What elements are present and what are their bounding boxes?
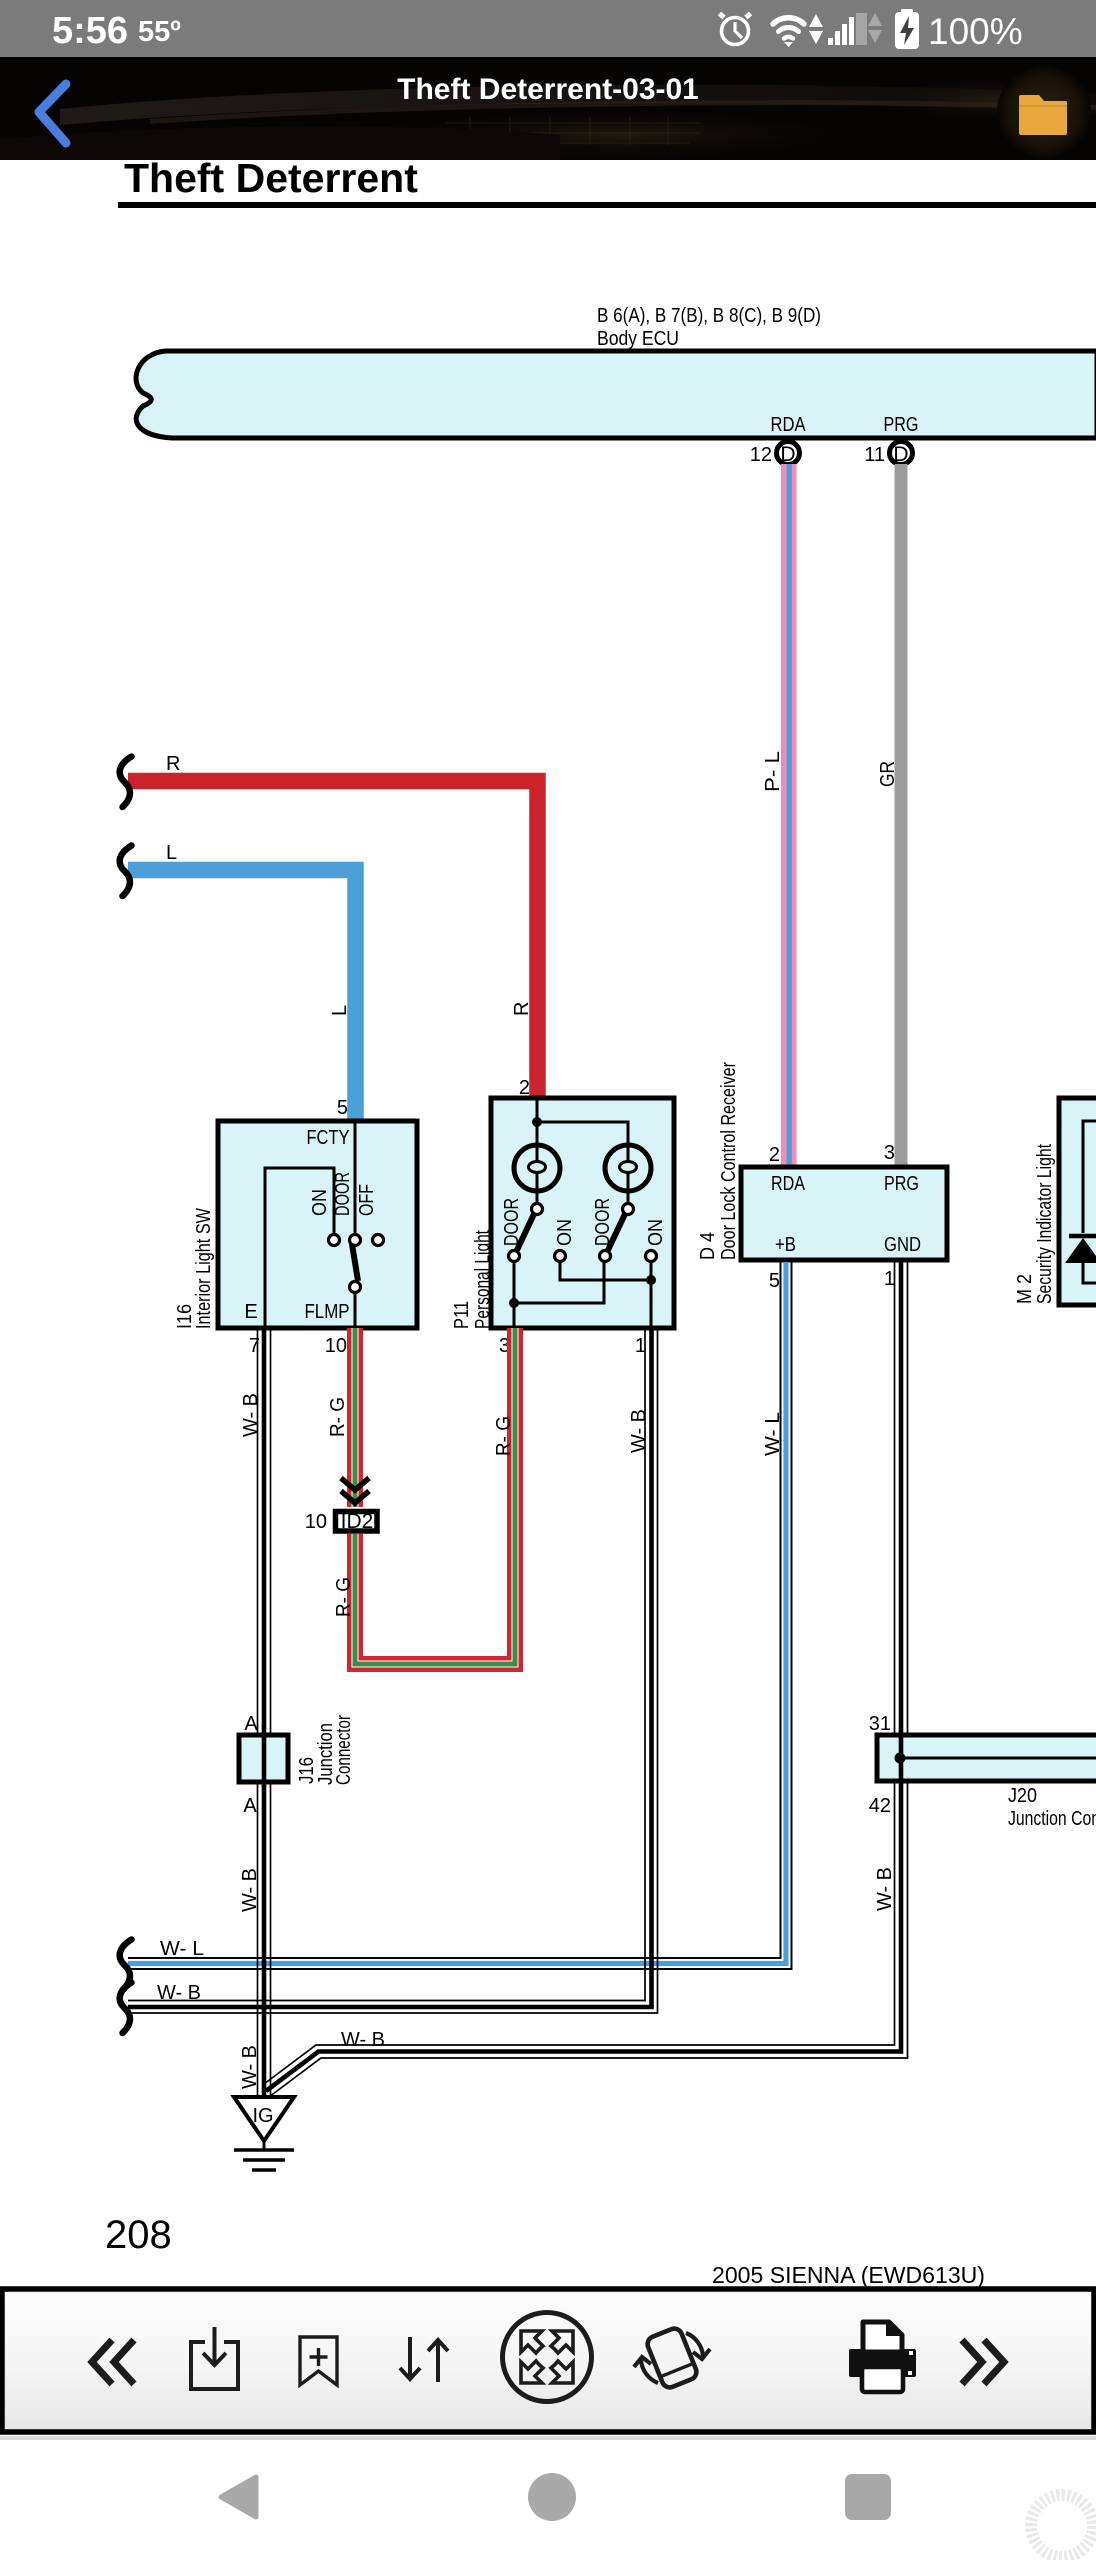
label Body ECU [597, 305, 821, 350]
continuation squiggle L [120, 846, 132, 897]
svg-text:A: A [243, 1795, 257, 1817]
svg-text:W- B: W- B [239, 1868, 261, 1912]
folder button [0, 0, 1, 1]
svg-text:R- G: R- G [327, 1397, 349, 1437]
svg-text:42: 42 [869, 1795, 891, 1817]
svg-text:12: 12 [750, 444, 772, 466]
pin 12 terminal D [750, 414, 806, 466]
toolbar icon download [191, 2327, 238, 2389]
contact pole left [509, 1251, 520, 1262]
switch arm I16 [352, 1244, 358, 1281]
splice marker arrows into ID2 [341, 1478, 369, 1503]
signal up/down arrows [868, 13, 882, 43]
ground IG symbol [234, 2097, 294, 2170]
svg-text:208: 208 [105, 2213, 172, 2257]
connector/ECU box B6-B9 Body ECU [136, 351, 1096, 438]
junction connector J16 box [239, 1715, 355, 1785]
svg-text:11: 11 [864, 444, 885, 466]
svg-text:E: E [244, 1301, 257, 1323]
junction dot pin3 node [509, 1298, 519, 1308]
svg-text:OFF: OFF [356, 1184, 378, 1216]
svg-text:Door Lock Control Receiver: Door Lock Control Receiver [718, 1062, 740, 1260]
contact ON right (P11) [645, 1219, 667, 1262]
switch arm left P11 [517, 1214, 534, 1250]
svg-text:W- B: W- B [874, 1867, 896, 1911]
svg-text:W- B: W- B [341, 2029, 385, 2051]
toolbar icon print [849, 2322, 916, 2392]
alarm clock icon [720, 14, 751, 45]
switch arm right P11 [608, 1214, 625, 1250]
svg-text:W- L: W- L [762, 1412, 784, 1456]
svg-text:ON: ON [645, 1219, 667, 1246]
svg-text:5: 5 [337, 1097, 348, 1119]
svg-text:R: R [511, 1002, 533, 1016]
svg-text:Junction Con: Junction Con [1008, 1808, 1096, 1830]
svg-text:FLMP: FLMP [305, 1301, 350, 1323]
svg-text:P- L: P- L [762, 751, 784, 792]
svg-text:31: 31 [869, 1713, 891, 1735]
svg-text:1: 1 [884, 1268, 895, 1290]
wire internal FCTY line [354, 1123, 357, 1234]
wire ON contacts to pin 1 [560, 1262, 651, 1326]
contact FLMP pole [350, 1282, 361, 1293]
svg-text:W- B: W- B [240, 1393, 262, 1437]
junction dot pin1 node [646, 1275, 656, 1285]
svg-text:W- B: W- B [239, 2045, 261, 2089]
contact DOOR (I16) [332, 1172, 361, 1246]
wire R-G from I16 pin 10 to ID2 [327, 1328, 355, 1507]
wire W-L from D4 +B to left edge [128, 1262, 792, 1969]
nav back triangle [221, 2477, 256, 2517]
svg-text:PRG: PRG [884, 414, 919, 436]
wire W-B from D4 GND down and to ground [264, 1262, 908, 2097]
svg-text:RDA: RDA [771, 414, 807, 436]
svg-text:D: D [780, 443, 795, 466]
wire W-B from I16 pin 7 to ground [239, 1328, 271, 2099]
lamp left [514, 1122, 560, 1204]
svg-text:2: 2 [769, 1144, 780, 1166]
toolbar container [0, 2289, 1096, 2440]
svg-text:IG: IG [252, 2105, 273, 2127]
svg-text:ID2: ID2 [341, 1510, 374, 1533]
svg-text:GND: GND [884, 1234, 921, 1256]
continuation squiggle R [120, 757, 132, 808]
svg-text:ON: ON [309, 1189, 331, 1216]
contact ON left (P11) [554, 1219, 576, 1262]
svg-text:PRG: PRG [884, 1173, 919, 1195]
folder icon [1019, 95, 1067, 135]
indicator M2 Security Indicator Light box [1014, 1098, 1096, 1305]
svg-text:GR: GR [877, 761, 899, 787]
wire left pole to pin 3 [513, 1262, 516, 1326]
receiver D4 Door Lock Control Receiver box [697, 1062, 947, 1260]
svg-text:Interior Light SW: Interior Light SW [193, 1208, 215, 1329]
svg-text:5: 5 [769, 1270, 780, 1292]
nav home circle [528, 2473, 576, 2521]
wire right DOOR pole to junction [514, 1262, 604, 1303]
toolbar icon fit/expand [503, 2313, 592, 2402]
svg-text:W- L: W- L [160, 1938, 204, 1960]
lamp unit P11 Personal Light box [451, 1098, 674, 1329]
lamp right [605, 1145, 651, 1204]
wire pin2 internal [537, 1100, 628, 1145]
svg-text:R- G: R- G [493, 1416, 515, 1456]
toolbar icon bookmark add [300, 2337, 337, 2385]
svg-text:A: A [244, 1713, 258, 1735]
svg-text:Connector: Connector [333, 1715, 355, 1785]
svg-text:W- B: W- B [628, 1409, 650, 1453]
svg-text:10: 10 [325, 1335, 347, 1357]
nav recents square [845, 2474, 891, 2520]
contact OFF (I16) [356, 1184, 384, 1246]
continuation squiggle W-L [120, 1940, 132, 1991]
toolbar icon scroll up/down [400, 2337, 448, 2382]
wire internal E line [265, 1168, 334, 1326]
svg-text:R- G: R- G [333, 1577, 355, 1617]
junction connector J20 box [877, 1735, 1096, 1830]
toolbar icon previous page [92, 2340, 134, 2384]
wifi up/down arrows [809, 14, 823, 44]
wifi icon [773, 18, 804, 39]
contact pole right [600, 1251, 611, 1262]
status bar [0, 0, 1096, 57]
svg-text:DOOR: DOOR [332, 1172, 354, 1216]
svg-text:J20: J20 [1008, 1785, 1037, 1807]
heading Theft Deterrent [118, 155, 1096, 208]
toolbar icon next page [962, 2340, 1004, 2384]
watermark [1031, 2495, 1093, 2557]
svg-text:Theft Deterrent: Theft Deterrent [124, 155, 418, 201]
wire L (blue) [128, 842, 356, 1121]
signal bars [828, 17, 854, 45]
wire GR from ECU pin 11 to D4 pin 3 [877, 464, 908, 1167]
continuation squiggle W-B [120, 1983, 132, 2034]
svg-text:D 4: D 4 [697, 1232, 719, 1260]
junction dot [532, 1117, 542, 1127]
svg-text:Personal Light: Personal Light [472, 1230, 494, 1329]
wire W-B from P11 pin 1 to left edge [128, 1328, 658, 2013]
contact DOOR right (P11) [592, 1198, 634, 1246]
svg-text:P11: P11 [451, 1301, 473, 1329]
svg-text:+B: +B [775, 1234, 796, 1256]
wire R-G from ID2 to P11 pin 3 [333, 1328, 515, 1664]
contact ON (I16) [309, 1189, 340, 1246]
svg-text:RDA: RDA [771, 1173, 806, 1195]
junction ID2 box [305, 1510, 377, 1533]
svg-text:W- B: W- B [157, 1982, 201, 2004]
svg-text:R: R [166, 753, 180, 775]
svg-text:ON: ON [554, 1219, 576, 1246]
wire internal M2 [1083, 1121, 1096, 1283]
svg-text:3: 3 [884, 1142, 895, 1164]
svg-text:2005 SIENNA (EWD613U): 2005 SIENNA (EWD613U) [712, 2262, 985, 2288]
back chevron [39, 84, 66, 143]
svg-text:FCTY: FCTY [307, 1127, 350, 1149]
svg-text:L: L [166, 842, 177, 864]
svg-text:Body ECU: Body ECU [597, 328, 679, 350]
diode/LED in M2 [1065, 1236, 1096, 1263]
svg-text:L: L [329, 1005, 351, 1016]
title bar [0, 57, 1096, 160]
svg-text:D: D [893, 443, 908, 466]
pin 11 terminal D [864, 414, 918, 466]
wire R (red) [128, 753, 538, 1099]
contact DOOR left (P11) [501, 1198, 543, 1246]
battery [895, 9, 919, 49]
switch I16 Interior Light SW box [174, 1121, 417, 1329]
wire FLMP to pin 10 [354, 1293, 357, 1326]
toolbar icon rotate device [634, 2326, 710, 2390]
svg-text:Security Indicator Light: Security Indicator Light [1034, 1144, 1056, 1304]
svg-text:B 6(A), B 7(B), B 8(C), B 9(D): B 6(A), B 7(B), B 8(C), B 9(D) [597, 305, 821, 327]
svg-text:M 2: M 2 [1014, 1274, 1036, 1304]
wire P-L from ECU pin 12 to D4 pin 2 [762, 464, 797, 1167]
svg-text:10: 10 [305, 1511, 327, 1533]
